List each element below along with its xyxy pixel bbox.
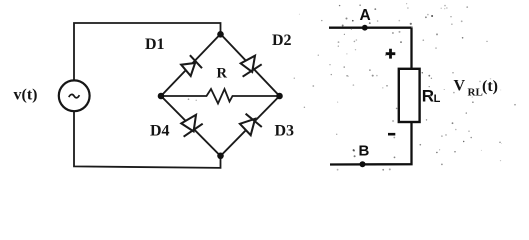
polarity - xyxy=(388,133,395,136)
label D1 xyxy=(145,36,165,53)
svg-text:B: B xyxy=(359,143,370,160)
label R xyxy=(217,66,228,82)
svg-text:D1: D1 xyxy=(145,36,165,53)
node: bridge left junction xyxy=(158,93,165,100)
node: bridge right junction xyxy=(276,93,283,100)
svg-text:A: A xyxy=(360,7,371,24)
diode D2 xyxy=(241,56,262,77)
wire: right circuit top (A to RL top) xyxy=(329,28,412,69)
label D4 xyxy=(150,123,170,140)
label D2 xyxy=(272,32,292,49)
label A xyxy=(360,7,371,24)
svg-text:D3: D3 xyxy=(275,123,295,140)
wire: top run from source to bridge top xyxy=(74,23,221,81)
svg-text:RL: RL xyxy=(468,87,483,99)
label D3 xyxy=(275,123,295,140)
voltage source v(t) xyxy=(59,80,90,111)
svg-text:D4: D4 xyxy=(150,123,170,140)
svg-text:V: V xyxy=(454,78,466,95)
diode D4 xyxy=(181,115,202,137)
svg-text:(t): (t) xyxy=(482,78,498,95)
node A xyxy=(362,25,368,31)
svg-text:L: L xyxy=(434,93,441,105)
node B xyxy=(360,161,366,167)
wire: bridge arm D2 (top node to right node) xyxy=(221,34,280,96)
wire: bridge arm D3 (bottom node to right node) xyxy=(221,96,280,156)
label VRL(t) xyxy=(454,78,498,99)
svg-text:R: R xyxy=(422,87,434,106)
node: bridge bottom junction xyxy=(217,153,224,160)
wire: bridge arm D1 (left node to top node) xyxy=(161,34,221,96)
label v(t) xyxy=(14,87,38,104)
svg-text:R: R xyxy=(217,66,228,82)
resistor RL (box) xyxy=(399,69,420,122)
svg-text:D2: D2 xyxy=(272,32,292,49)
wire: right circuit bottom (RL bottom to B) xyxy=(330,122,412,165)
wire: bridge arm D4 (left node to bottom node) xyxy=(161,96,221,156)
label RL xyxy=(422,87,441,106)
scan noise speckles (decorative) xyxy=(188,3,516,170)
node: bridge top junction xyxy=(217,31,224,38)
label B xyxy=(359,143,370,160)
polarity + xyxy=(386,49,396,59)
diode D3 xyxy=(240,114,262,136)
wire: bottom run from source to bridge bottom xyxy=(74,111,221,168)
diode D1 xyxy=(181,55,202,76)
resistor R (middle horizontal) xyxy=(161,89,280,104)
svg-text:v(t): v(t) xyxy=(14,87,38,104)
